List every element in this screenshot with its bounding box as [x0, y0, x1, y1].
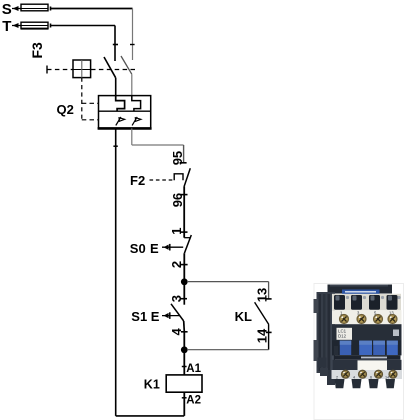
svg-text:1: 1: [169, 228, 184, 235]
svg-text:E: E: [151, 309, 160, 324]
svg-text:2: 2: [336, 376, 338, 380]
svg-text:3: 3: [169, 295, 184, 302]
svg-text:6: 6: [370, 376, 372, 380]
svg-text:S1: S1: [131, 309, 147, 324]
svg-text:96: 96: [170, 193, 185, 207]
svg-text:4: 4: [353, 376, 355, 380]
svg-text:D12: D12: [338, 334, 347, 339]
svg-text:14: 14: [385, 376, 389, 380]
svg-text:A1: A1: [186, 363, 201, 375]
svg-text:Q2: Q2: [57, 102, 74, 117]
svg-text:F3: F3: [29, 42, 45, 59]
svg-text:KL: KL: [235, 309, 252, 324]
svg-text:S: S: [2, 1, 12, 18]
svg-text:13: 13: [255, 288, 270, 302]
svg-text:4: 4: [169, 328, 184, 336]
svg-text:F2: F2: [130, 173, 145, 188]
svg-text:E: E: [150, 241, 159, 256]
svg-text:K1: K1: [144, 377, 160, 391]
svg-text:95: 95: [170, 151, 185, 165]
svg-text:T: T: [2, 18, 11, 35]
svg-text:A2: A2: [186, 395, 201, 407]
svg-text:S0: S0: [130, 241, 146, 256]
svg-text:14: 14: [255, 328, 270, 343]
svg-text:2: 2: [169, 261, 184, 268]
